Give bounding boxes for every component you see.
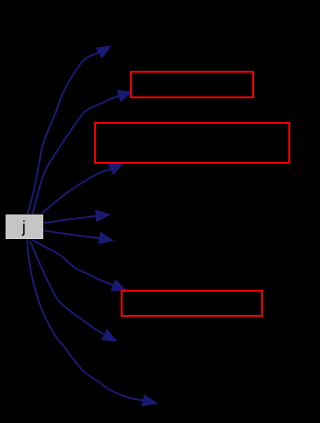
wire edge j->n3 (to box B2) (42, 163, 124, 213)
wire edge j->n5 (44, 231, 113, 244)
wire edge j->n4 (44, 210, 110, 223)
wire edge j->n2 (to box B1) (33, 91, 133, 214)
wire edge j->n8 (27, 240, 156, 406)
wire edge j->n6 (to box B3) (32, 240, 126, 291)
wire edge j->n7 (30, 241, 117, 341)
node j (grey source node) (6, 215, 43, 239)
node box B3 (red, linked file) (122, 291, 262, 316)
node box B2 (red, linked file) (95, 123, 289, 163)
wire edge j->n1 (28, 46, 111, 214)
node box B1 (red, linked file) (131, 72, 253, 98)
